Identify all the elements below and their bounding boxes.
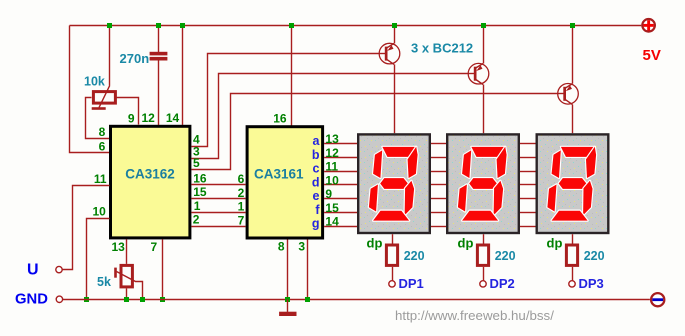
svg-text:10: 10 bbox=[92, 205, 106, 219]
wire 10k wiper to rail bbox=[109, 25, 111, 85]
svg-text:5V: 5V bbox=[643, 47, 661, 64]
resistor 220 #2 bbox=[477, 245, 488, 265]
wire pin3 to Q2 base bbox=[192, 74, 469, 159]
junction gnd/5k wiper bbox=[140, 297, 145, 302]
pin 13 label bbox=[112, 240, 126, 254]
display DS3 body bbox=[537, 134, 609, 233]
potentiometer 5k body bbox=[121, 265, 132, 287]
capacitor 270n bbox=[150, 52, 168, 61]
label 5k bbox=[97, 275, 111, 289]
junction rail/pin14 bbox=[180, 23, 185, 28]
wire BCD 1-1 bbox=[191, 212, 245, 214]
junction rail/cap bbox=[156, 23, 161, 28]
pin 14 label CA3161 right bbox=[325, 215, 339, 229]
pin 10 label CA3161 right bbox=[325, 173, 339, 187]
svg-text:14: 14 bbox=[166, 111, 180, 125]
label U bbox=[27, 262, 39, 279]
trimmer 10k body bbox=[93, 92, 115, 104]
label 220 #1 bbox=[404, 249, 425, 263]
pin d label bbox=[312, 175, 320, 189]
trimmer 10k wiper bbox=[92, 86, 110, 110]
svg-text:5k: 5k bbox=[97, 275, 111, 289]
svg-text:3: 3 bbox=[298, 240, 305, 254]
junction gnd/3161pin8 bbox=[285, 297, 290, 302]
junction rail/Q2 bbox=[481, 23, 486, 28]
svg-text:12: 12 bbox=[141, 111, 155, 125]
label DP2 bbox=[490, 276, 515, 291]
wire display 1 dp pin bbox=[392, 234, 394, 243]
pin 1 label bbox=[194, 199, 201, 213]
pin 16 label bbox=[193, 171, 207, 185]
svg-text:5: 5 bbox=[193, 156, 200, 170]
pin 13 label CA3161 right bbox=[325, 132, 339, 146]
display DS2 segments bbox=[458, 147, 507, 221]
svg-text:15: 15 bbox=[193, 185, 207, 199]
junction gnd/pin7 bbox=[160, 297, 165, 302]
wire rail to CA3161 pin16 bbox=[291, 25, 293, 126]
label 220 #3 bbox=[584, 249, 605, 263]
junction gnd/3161pin3 bbox=[305, 297, 310, 302]
pin 2 label bbox=[193, 213, 200, 227]
label CA3162 bbox=[125, 167, 175, 182]
junction gnd/pin10 bbox=[84, 297, 89, 302]
wire cap to pin12 bbox=[158, 61, 160, 125]
svg-text:14: 14 bbox=[325, 215, 339, 229]
svg-text:220: 220 bbox=[404, 249, 425, 263]
svg-text:16: 16 bbox=[273, 112, 287, 126]
terminal DP2 bbox=[480, 281, 486, 287]
label DP3 bbox=[579, 276, 604, 291]
pin 1 label CA3161 bbox=[238, 200, 245, 214]
transistor Q3 BC212 bbox=[558, 84, 579, 105]
wire rail to pin6 bbox=[70, 26, 110, 153]
pin g label bbox=[312, 217, 320, 231]
wire pot right to pin9 bbox=[117, 98, 139, 125]
terminal U bbox=[56, 266, 62, 272]
svg-text:1: 1 bbox=[194, 199, 201, 213]
wire pin4 to Q1 base bbox=[192, 54, 380, 147]
svg-text:11: 11 bbox=[94, 172, 107, 186]
display DS1 segments bbox=[369, 147, 418, 221]
pin 6 label bbox=[99, 139, 106, 153]
pin 7 label bbox=[151, 240, 158, 254]
svg-text:DP1: DP1 bbox=[399, 276, 424, 291]
wire rail to pin14 bbox=[182, 25, 184, 125]
svg-text:9: 9 bbox=[325, 187, 332, 201]
svg-text:6: 6 bbox=[238, 172, 245, 186]
wire resistor 3 to DP3 bbox=[572, 267, 574, 281]
wire +5V top rail bbox=[70, 25, 642, 27]
svg-text:a: a bbox=[313, 134, 321, 148]
pin 14 label bbox=[166, 111, 180, 125]
svg-text:DP2: DP2 bbox=[490, 276, 515, 291]
junction rail/pin16 bbox=[289, 23, 294, 28]
pin 8 bottom label bbox=[278, 240, 285, 254]
svg-text:2: 2 bbox=[193, 213, 200, 227]
svg-text:http://www.freeweb.hu/bss/: http://www.freeweb.hu/bss/ bbox=[395, 308, 554, 323]
wire pin5 to Q3 base bbox=[192, 94, 558, 170]
pin 4 label bbox=[193, 132, 200, 146]
pin 3 label bbox=[193, 144, 200, 158]
pin 9 label bbox=[128, 112, 135, 126]
svg-text:15: 15 bbox=[325, 201, 339, 215]
label 220 #2 bbox=[495, 249, 516, 263]
wire CA3161 pin3 to GND bbox=[307, 240, 309, 300]
svg-text:CA3161: CA3161 bbox=[254, 167, 304, 182]
wire BCD 16-6 bbox=[191, 184, 245, 186]
op-amp U2 CA3161 body bbox=[247, 127, 323, 238]
svg-text:c: c bbox=[313, 162, 320, 176]
junction rail/10k bbox=[107, 23, 112, 28]
svg-text:13: 13 bbox=[325, 132, 339, 146]
svg-text:b: b bbox=[312, 148, 320, 162]
wire Q2 collector to display 2 bbox=[483, 85, 485, 134]
pin 7 label CA3161 bbox=[238, 213, 245, 227]
svg-text:220: 220 bbox=[584, 249, 605, 263]
wire rail to Q1 emitter bbox=[394, 25, 396, 43]
wire resistor 1 to DP1 bbox=[392, 267, 394, 281]
svg-text:6: 6 bbox=[99, 139, 106, 153]
label 270n bbox=[120, 51, 150, 66]
display DS2 body bbox=[447, 134, 519, 233]
svg-text:220: 220 bbox=[495, 249, 516, 263]
label 5V bbox=[643, 47, 661, 64]
wire rail to Q3 emitter bbox=[572, 25, 574, 83]
wire Q1 collector to display 1 bbox=[394, 64, 396, 133]
wire pin7 to GND bbox=[162, 239, 164, 299]
resistor 220 #3 bbox=[566, 245, 577, 265]
pin 9 label CA3161 right bbox=[325, 187, 332, 201]
wire pin11 bbox=[63, 186, 110, 270]
svg-text:1: 1 bbox=[238, 200, 245, 214]
footer url bbox=[395, 308, 554, 323]
svg-text:dp: dp bbox=[367, 235, 383, 250]
wire pin13 to 5k bbox=[126, 239, 128, 264]
pin 15 label bbox=[193, 185, 207, 199]
wire Q3 collector to display 3 bbox=[572, 105, 574, 134]
wire resistor 2 to DP2 bbox=[483, 267, 485, 281]
wire rail to Q2 emitter bbox=[483, 25, 485, 63]
pin 10 label bbox=[92, 205, 106, 219]
svg-text:12: 12 bbox=[325, 146, 339, 160]
pin 2 label CA3161 bbox=[238, 186, 245, 200]
display DS1 body bbox=[358, 134, 430, 233]
label 10k bbox=[84, 74, 105, 88]
potentiometer 5k wiper bbox=[114, 268, 142, 300]
label dp 1 bbox=[367, 235, 383, 250]
svg-text:e: e bbox=[313, 189, 320, 203]
pin 11 label bbox=[94, 172, 107, 186]
wire BCD 2-7 bbox=[191, 226, 245, 228]
svg-text:3 x BC212: 3 x BC212 bbox=[411, 41, 473, 56]
transistor Q1 BC212 bbox=[379, 43, 400, 64]
junction gnd/5k bbox=[124, 297, 129, 302]
terminal DP3 bbox=[569, 281, 575, 287]
svg-text:CA3162: CA3162 bbox=[125, 167, 175, 182]
wire rail to cap bbox=[158, 25, 160, 52]
resistor 220 #1 bbox=[386, 245, 397, 265]
pin 6 label CA3161 bbox=[238, 172, 245, 186]
label CA3161 bbox=[254, 167, 304, 182]
wire GND rail bbox=[63, 299, 650, 301]
svg-text:7: 7 bbox=[238, 213, 245, 227]
label DP1 bbox=[399, 276, 424, 291]
pin 3 bottom label bbox=[298, 240, 305, 254]
pin a label bbox=[313, 134, 321, 148]
svg-text:d: d bbox=[312, 175, 320, 189]
ground bbox=[279, 299, 296, 316]
svg-text:dp: dp bbox=[547, 235, 563, 250]
pin 11 label CA3161 right bbox=[325, 160, 338, 174]
wire CA3161 pin8 to GND bbox=[287, 240, 289, 300]
label 3 x BC212 bbox=[411, 41, 473, 56]
pin 12 label CA3161 right bbox=[325, 146, 339, 160]
wire display 2 dp pin bbox=[483, 234, 485, 243]
terminal +5V plus bbox=[642, 19, 655, 32]
pin 5 label bbox=[193, 156, 200, 170]
pin e label bbox=[313, 189, 320, 203]
wire segment bus a-g bbox=[324, 144, 535, 227]
svg-text:16: 16 bbox=[193, 171, 207, 185]
pin 15 label CA3161 right bbox=[325, 201, 339, 215]
svg-text:8: 8 bbox=[99, 125, 106, 139]
terminal DP1 bbox=[389, 281, 395, 287]
pin b label bbox=[312, 148, 320, 162]
svg-text:DP3: DP3 bbox=[579, 276, 604, 291]
wire BCD 15-2 bbox=[191, 198, 245, 200]
wire display 3 dp pin bbox=[572, 234, 574, 243]
pin 16 top label bbox=[273, 112, 287, 126]
junction rail/Q1 bbox=[392, 23, 397, 28]
transistor Q2 BC212 bbox=[468, 63, 489, 84]
terminal GND bbox=[56, 296, 62, 302]
svg-text:dp: dp bbox=[458, 235, 474, 250]
label GND bbox=[15, 291, 48, 307]
pin c label bbox=[313, 162, 320, 176]
pin 12 label bbox=[141, 111, 155, 125]
pin 8 label bbox=[99, 125, 106, 139]
svg-text:11: 11 bbox=[325, 160, 338, 174]
svg-text:10: 10 bbox=[325, 173, 339, 187]
op-amp U1 CA3162 body bbox=[111, 126, 190, 238]
svg-text:9: 9 bbox=[128, 112, 135, 126]
svg-text:GND: GND bbox=[15, 291, 48, 307]
svg-text:10k: 10k bbox=[84, 74, 105, 88]
svg-text:U: U bbox=[27, 262, 39, 279]
wire 5k bottom to GND bbox=[126, 288, 128, 299]
junction rail/Q3 bbox=[570, 23, 575, 28]
svg-text:8: 8 bbox=[278, 240, 285, 254]
terminal minus bbox=[651, 293, 664, 306]
wire pin8 to pot left bbox=[86, 98, 110, 139]
svg-text:13: 13 bbox=[112, 240, 126, 254]
display DS3 segments bbox=[547, 147, 596, 221]
label dp 2 bbox=[458, 235, 474, 250]
wire pin10 to GND bbox=[87, 219, 110, 300]
svg-text:g: g bbox=[312, 217, 320, 231]
svg-text:270n: 270n bbox=[120, 51, 150, 66]
svg-text:2: 2 bbox=[238, 186, 245, 200]
label dp 3 bbox=[547, 235, 563, 250]
svg-text:7: 7 bbox=[151, 240, 158, 254]
pin f label bbox=[315, 203, 320, 217]
